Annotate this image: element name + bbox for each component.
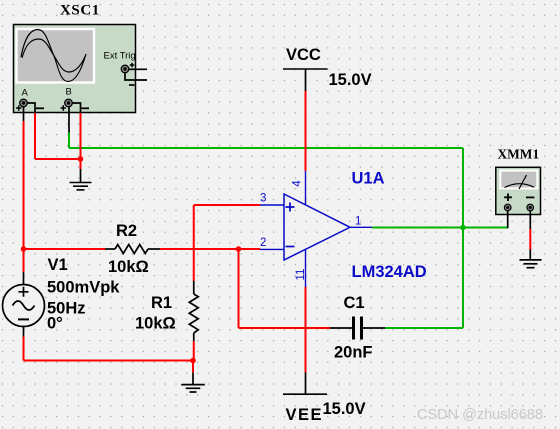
ground (bottom) [181,385,205,392]
wire: to ground symbol (black) [192,373,194,385]
svg-text:LM324AD: LM324AD [352,263,427,281]
op-amp U1A [284,194,350,260]
XSC1 terminal B [65,99,73,107]
wire: bottom horizontal to ground node (red) [24,360,194,362]
ground (multimeter) [520,260,542,268]
wire: pin3 node horizontal (red) [194,204,260,206]
svg-text:2: 2 [260,237,266,249]
wire: VEE bar up (black) [305,373,307,395]
wire: node to ground (red then black) [80,159,82,183]
wire: scope A- down (red) [34,113,36,159]
svg-text:10kΩ: 10kΩ [108,258,149,276]
wire: scope B+ lead (black pin) [68,107,70,133]
resistor R1 [189,281,198,341]
multimeter XMM1 [496,167,541,214]
wire: scope B+ down (green) [68,133,70,149]
wire: C1 right to net (green) [385,327,463,329]
wire: R2 right to op-amp pin2 (red) [160,248,260,250]
svg-text:10kΩ: 10kΩ [135,315,176,333]
op-amp pin 4 (V+) [292,171,306,205]
wire: scope A- to ground node (red) [35,158,81,160]
wire: V1 bottom lead (black) [23,327,25,337]
svg-text:R1: R1 [151,294,172,312]
svg-text:R2: R2 [116,222,137,240]
wire: pin3 node down to R1 (red) [193,205,195,281]
oscilloscope XSC1 [14,25,136,113]
XSC1 Ext Trig terminal [121,65,129,73]
wire: VCC bar down (black) [305,69,307,91]
wire: scope A- lead (black pin) [27,103,35,113]
VCC power symbol bar [283,68,328,70]
svg-text:V1: V1 [48,256,68,274]
svg-text:3: 3 [260,193,266,205]
wire: output net vertical (green) [462,148,464,328]
XSC1 terminal A [20,99,28,107]
wire: V1 top lead (black) [23,272,25,285]
svg-text:CSDN @zhusl6688: CSDN @zhusl6688 [417,407,543,423]
wire: XMM1 plus lead down (black) [507,211,509,229]
svg-text:A: A [22,88,29,99]
resistor R2 [105,245,160,254]
wire: op-amp output to net (green) [372,227,508,229]
capacitor C1 [330,317,385,340]
wire: R1 bottom to ground node (red) [193,341,195,361]
junction: bottom ground node [190,358,196,364]
wire: junction to R2 left (red) [24,248,106,250]
op-amp pin 2 (inverting input) [260,237,284,249]
wire: scope A+ lead (black pin) [23,107,25,121]
svg-text:0°: 0° [47,315,63,333]
op-amp pin 1 (output) [350,216,372,228]
XMM1 plus terminal [504,204,511,211]
svg-text:11: 11 [295,269,307,281]
wire: inverting node down (red) [238,249,240,328]
op-amp pin 11 (V-) [295,249,307,287]
wire: VEE to op-amp pin11 (red) [305,287,307,373]
svg-text:B: B [66,87,72,98]
wire: output net top horizontal (green) [69,147,463,149]
svg-text:Ext Trig: Ext Trig [104,51,136,62]
svg-text:C1: C1 [344,294,365,312]
svg-text:15.0V: 15.0V [323,400,366,418]
VEE power symbol bar [283,393,327,395]
wire: Ext Trig minus stub [125,73,147,80]
junction: scope ground node [78,156,84,162]
wire: VCC to op-amp pin4 (red) [305,91,307,171]
svg-text:VCC: VCC [286,46,321,64]
junction: output node (green) [460,225,466,231]
svg-text:500mVpk: 500mVpk [47,279,120,297]
svg-text:U1A: U1A [352,170,385,188]
svg-text:15.0V: 15.0V [329,71,372,89]
op-amp pin 3 (non-inverting input) [260,193,284,206]
junction: inverting input node [236,246,242,252]
wire: V1 minus down (red) [23,337,25,361]
ground (scope) [70,183,92,190]
node V1/R2 junction [21,246,27,252]
wire: XMM1 minus lead down (black) [529,211,531,229]
svg-text:4: 4 [292,180,304,187]
wire: XMM1 minus to ground (black) [529,250,531,260]
wire: Ext Trig plus stub [129,68,147,70]
wire: scope B- lead (black pin) [72,103,80,113]
wire: junction down to V1 (red) [23,249,25,272]
svg-text:20nF: 20nF [334,344,373,362]
AC source V1 [3,285,45,327]
svg-text:1: 1 [355,216,361,228]
svg-text:XMM1: XMM1 [498,147,540,162]
XMM1 minus terminal [527,204,534,211]
wire: scope A+ to node V1/R2 (red) [23,121,25,249]
wire: scope B- down (red) [80,113,82,159]
wire: XMM1 minus (red) [529,229,531,250]
wire: bottom node down (red) [192,361,194,373]
svg-text:VEE: VEE [286,406,324,424]
svg-text:XSC1: XSC1 [60,3,100,19]
wire: to C1 left (red) [239,327,331,329]
